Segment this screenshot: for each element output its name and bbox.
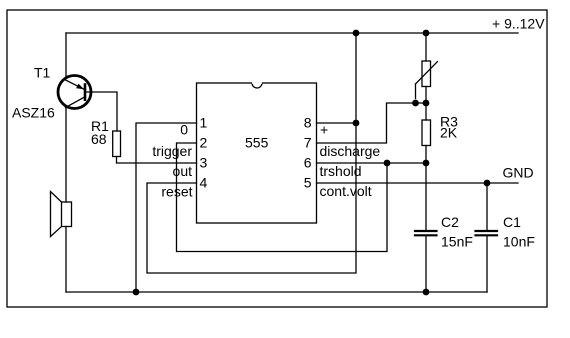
transistor emitter diagonal [65, 80, 85, 90]
junction dot top bus pin8 riser [353, 30, 360, 37]
svg-text:555: 555 [245, 135, 269, 151]
capacitor C2 lead bottom [425, 237, 427, 293]
svg-text:3: 3 [200, 155, 208, 171]
transistor base bar [84, 85, 87, 100]
svg-text:+ 9..12V: + 9..12V [492, 16, 545, 32]
svg-text:68: 68 [91, 131, 107, 147]
svg-text:trshold: trshold [320, 163, 362, 179]
svg-text:ASZ16: ASZ16 [12, 105, 55, 121]
svg-text:1: 1 [200, 115, 208, 131]
wire R1 to out pin3 [117, 157, 197, 164]
IC notch [252, 83, 262, 88]
capacitor C1 plates [476, 231, 498, 235]
svg-text:+: + [320, 122, 328, 138]
svg-text:reset: reset [161, 184, 192, 200]
resistor R3 body [422, 120, 431, 146]
junction dot wiper [412, 100, 419, 107]
svg-text:8: 8 [304, 115, 312, 131]
junction dot gnd line C1 [484, 180, 491, 187]
wire speaker to ground bus [65, 227, 67, 293]
svg-text:10nF: 10nF [503, 234, 535, 250]
wire pin2 trigger loop [177, 143, 388, 252]
junction dot top bus trimmer [423, 30, 430, 37]
transistor T1 body [58, 76, 91, 109]
resistor R3 lead bottom [425, 146, 427, 164]
svg-text:GND: GND [503, 165, 534, 181]
trimmer body [422, 61, 431, 87]
wire pin6 trshold [317, 162, 427, 164]
svg-text:C1: C1 [503, 214, 521, 230]
wire transistor emitter to +V [65, 33, 67, 78]
junction dot bottom bus C2 [423, 289, 430, 296]
trimmer P1 lead bottom [425, 87, 427, 104]
speaker cone [51, 192, 62, 237]
wire ground bottom bus [66, 291, 487, 293]
trimmer diagonal [416, 62, 438, 85]
junction dot trshold R3 C2 [423, 160, 430, 167]
capacitor C1 lead top [486, 183, 488, 230]
wire pin5 cont.volt GND line [317, 182, 519, 184]
resistor R1 body [113, 131, 121, 157]
svg-text:6: 6 [304, 155, 312, 171]
capacitor C1 lead bottom [486, 237, 488, 293]
svg-text:discharge: discharge [320, 143, 381, 159]
svg-text:C2: C2 [441, 214, 459, 230]
capacitor C2 lead top [425, 163, 427, 230]
svg-text:0: 0 [180, 122, 188, 138]
svg-text:trigger: trigger [152, 143, 192, 159]
svg-text:T1: T1 [34, 65, 51, 81]
junction dot pin8 [353, 120, 360, 127]
wire pin1 0/gnd [136, 123, 197, 292]
wire collector to speaker [65, 108, 67, 202]
wire base to R1 [86, 92, 117, 131]
transistor emitter arrow [76, 84, 84, 90]
wire +V top bus [66, 32, 518, 34]
svg-text:2: 2 [200, 135, 208, 151]
speaker driver box [62, 202, 72, 227]
wire pin8 plus stub [317, 122, 357, 124]
junction dot trshold trigger riser [384, 160, 391, 167]
svg-text:15nF: 15nF [441, 234, 473, 250]
resistor R3 lead top [425, 103, 427, 120]
junction dot trimmer R3 [423, 100, 430, 107]
svg-text:out: out [173, 163, 193, 179]
trimmer lead top [425, 33, 427, 61]
transistor collector diagonal [66, 97, 85, 108]
trimmer wiper lead [415, 84, 417, 99]
wire pin4 reset loop [147, 33, 356, 273]
svg-text:4: 4 [200, 175, 208, 191]
svg-text:2K: 2K [440, 125, 458, 141]
capacitor C2 plates [415, 231, 437, 235]
svg-text:5: 5 [304, 175, 312, 191]
svg-text:cont.volt: cont.volt [320, 183, 372, 199]
svg-text:7: 7 [304, 135, 312, 151]
junction dot bottom bus pin1 riser [133, 289, 140, 296]
IC 555 body [197, 83, 317, 223]
wire pin7 discharge [317, 103, 427, 143]
